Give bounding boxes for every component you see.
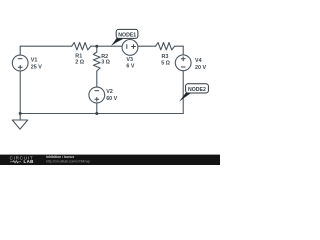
svg-text:20 V: 20 V: [195, 65, 206, 71]
resistor R1: [72, 43, 91, 50]
svg-text:V3: V3: [126, 57, 133, 63]
svg-text:NODE2: NODE2: [188, 87, 206, 93]
junction node: ground/bottom rail: [19, 112, 22, 115]
voltage source V3 circle (horizontal): [122, 40, 138, 56]
V3 minus terminal glyph (rotated bar): [126, 44, 128, 49]
svg-text:3 Ω: 3 Ω: [101, 60, 110, 66]
V2 minus terminal glyph: [95, 90, 100, 92]
footer bar: [0, 155, 220, 165]
V3 plus terminal glyph: [131, 44, 136, 49]
svg-text:2 Ω: 2 Ω: [75, 59, 84, 65]
svg-text:NODE1: NODE1: [118, 33, 136, 39]
svg-text:5 Ω: 5 Ω: [161, 61, 170, 67]
V4 plus terminal glyph: [181, 57, 186, 62]
node NODE2 flag box: [186, 84, 209, 93]
wire top rail right segment: [175, 45, 184, 47]
svg-text:V2: V2: [106, 89, 113, 95]
V1 minus terminal glyph: [18, 58, 23, 60]
node NODE1 flag tail: [111, 37, 123, 46]
svg-text:R3: R3: [162, 54, 169, 60]
wire left leg (V1 branch): [19, 46, 21, 113]
wire top rail middle segment: [91, 45, 156, 47]
node NODE1 flag box: [116, 29, 138, 38]
svg-text:LAB: LAB: [24, 159, 34, 164]
V4 minus terminal glyph: [181, 66, 186, 68]
wire R2/V2 lower leg: [96, 71, 98, 114]
resistor R3: [156, 43, 175, 50]
svg-text:6 V: 6 V: [126, 64, 134, 70]
wire right leg (V4 branch): [182, 46, 184, 113]
svg-text:25 V: 25 V: [31, 64, 42, 70]
voltage source V2 circle: [89, 87, 105, 103]
svg-text:60 V: 60 V: [106, 96, 117, 102]
footer CircuitLab logo: [10, 155, 34, 164]
node NODE2 flag tail: [179, 93, 191, 102]
ground symbol: [12, 114, 27, 130]
wire top rail left segment: [20, 45, 71, 47]
voltage source V4 circle: [175, 55, 191, 71]
voltage source V1 circle: [12, 55, 28, 71]
wire bottom rail: [20, 113, 183, 115]
svg-text:http://circuitlab.com/c/784rwp: http://circuitlab.com/c/784rwp: [46, 159, 90, 163]
V2 plus terminal glyph: [95, 97, 100, 102]
svg-text:V1: V1: [31, 57, 38, 63]
svg-text:V4: V4: [195, 58, 202, 64]
junction node: V2/bottom rail: [95, 112, 98, 115]
wire R2 top stub: [96, 46, 98, 52]
junction node: R1/R2/top rail: [95, 45, 98, 48]
V1 plus terminal glyph: [18, 65, 23, 70]
resistor R2: [93, 52, 100, 71]
